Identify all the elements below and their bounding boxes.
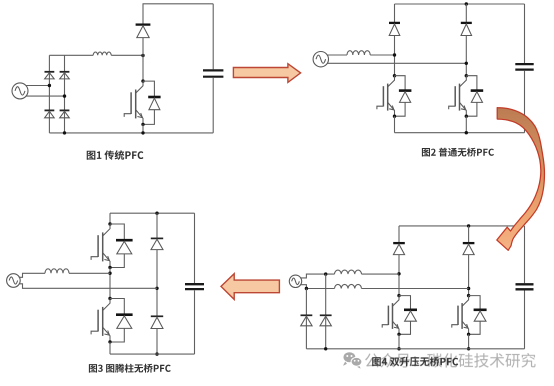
junction: fig4 left leg to bottom rail	[397, 347, 400, 350]
wire: fig4 left leg lower	[398, 334, 400, 349]
transistor Q4 with diode D11 (fig3 upper switch)	[91, 224, 124, 268]
junction: fig2 left IGBT emitter	[393, 115, 396, 118]
inductor L4 (fig4 top)	[335, 270, 362, 274]
wire: fig3 left leg top	[109, 213, 111, 224]
wire: fig3 cap vertical lower	[194, 290, 196, 354]
wire: fig2 top rail	[395, 3, 525, 5]
wire: fig2 AC top lead to inductor	[327, 54, 347, 56]
label: fig1 caption 图1 传统PFC	[87, 150, 144, 160]
wire: fig2 bottom rail	[395, 132, 525, 134]
junction: fig1 AC- to bridge	[63, 94, 66, 97]
wire: fig4 left leg upper	[398, 226, 400, 242]
wire: fig4 AC bottom lead jog	[300, 285, 334, 289]
arrow: fig2 to fig4 (curved block arrow)	[497, 108, 545, 251]
watermark: 公众号：碳化硅技术研究	[365, 353, 536, 368]
wire: fig3 left leg bottom	[109, 342, 111, 354]
junction: fig4 bottom lead to branch 1	[305, 287, 308, 290]
diode D13 (fig3 mid leg upper)	[151, 237, 163, 239]
junction: fig3 lower IGBT emitter	[108, 340, 111, 343]
wire: fig4 right leg middle	[468, 255, 470, 296]
wire: fig3 mid leg middle	[156, 250, 158, 317]
junction: fig4 top lead to branch 2	[324, 272, 327, 275]
capacitor C1 (fig1 output cap)	[203, 69, 223, 71]
wire: fig1 boost diode branch lower	[142, 38, 144, 56]
wire: fig3 AC top lead after inductor	[69, 272, 110, 274]
capacitor C2 (fig2 output cap)	[515, 63, 533, 65]
wire: fig4 return branch 2 vertical	[325, 274, 327, 349]
diode D1 (fig1 bridge upper-left)	[45, 71, 55, 73]
wire: fig2 left leg upper	[394, 4, 396, 23]
junction: fig1 switch to bottom rail	[141, 131, 144, 134]
transistor Q1 with diode D6 (fig1 boost switch)	[124, 81, 154, 124]
junction: fig4 right IGBT emitter	[467, 333, 470, 336]
junction: fig2 right IGBT collector	[465, 74, 468, 77]
wire: fig1 top rail left of inductor	[49, 54, 93, 56]
wire: fig1 switch branch upper	[142, 55, 144, 81]
junction: fig2 right IGBT emitter	[465, 115, 468, 118]
junction: fig1 AC+ to bridge	[48, 84, 51, 87]
wire: fig1 bottom rail	[49, 132, 213, 134]
wire: fig2 right leg upper	[465, 4, 467, 23]
AC source V2 (fig2)	[313, 52, 328, 67]
junction: fig1 bridge right to bottom rail	[63, 131, 66, 134]
junction: fig2 top rail right leg	[465, 2, 468, 5]
junction: fig2 AC- to right leg	[465, 62, 468, 65]
wire: fig2 cap vertical lower	[524, 71, 526, 133]
diode D14 (fig3 mid leg lower)	[151, 315, 163, 317]
wire: fig1 top rail right of inductor	[111, 54, 143, 56]
transistor Q3 with diode D10 (fig2 right switch)	[449, 76, 477, 117]
wire: fig4 AC bottom lead after inductor	[362, 288, 469, 290]
transistor Q2 with diode D8 (fig2 left switch)	[377, 76, 405, 117]
wire: fig3 left leg mid	[109, 268, 111, 299]
wire: fig4 right leg lower	[468, 334, 470, 349]
wire: fig3 AC bottom lead	[19, 284, 157, 289]
wire: fig1 output right vertical upper	[212, 4, 214, 70]
arrow: fig1 to fig2 (right block arrow)	[233, 64, 300, 83]
AC source V1 (fig1)	[12, 83, 28, 99]
diode D5 (fig1 boost diode)	[136, 23, 151, 25]
transistor Q5 with diode D12 (fig3 lower switch)	[91, 299, 124, 343]
wire: fig4 right leg upper	[468, 226, 470, 242]
AC source V3 (fig3)	[7, 274, 21, 288]
inductor L5 (fig4 bottom)	[335, 284, 362, 288]
wire: fig4 AC top lead jog	[300, 274, 334, 278]
junction: fig1 IGBT collector node	[141, 79, 144, 82]
capacitor C3 (fig3 output cap)	[185, 283, 204, 285]
junction: fig1 boost node	[141, 54, 144, 57]
transistor Q7 with diode D18 (fig4 right switch)	[452, 296, 480, 335]
wire: fig1 output top rail	[143, 3, 214, 5]
inductor L2 (fig2)	[347, 51, 370, 55]
wire: fig3 AC top lead jog	[19, 273, 45, 277]
label: fig2 caption 图2 普通无桥PFC	[422, 148, 494, 157]
diode D4 (fig1 bridge lower-right)	[60, 109, 70, 111]
diode D15 (fig4 left leg)	[393, 242, 405, 244]
wire: fig1 boost diode branch upper	[142, 4, 144, 24]
diode D2 (fig1 bridge upper-right)	[60, 71, 70, 73]
inductor L3 (fig3)	[45, 269, 69, 274]
diode D20 (fig4 return branch 2)	[320, 314, 332, 316]
wire: fig2 AC bottom lead	[327, 62, 466, 64]
diode D7 (fig2 left leg)	[389, 22, 400, 24]
wire: fig2 left leg middle	[394, 36, 396, 76]
label: fig4 caption 图4 双升压无桥PFC	[372, 357, 458, 366]
AC source V4 (fig4)	[289, 275, 301, 287]
junction: fig4 right IGBT collector	[467, 294, 470, 297]
label: fig3 caption 图3 图腾柱无桥PFC	[89, 364, 171, 373]
inductor L1 (fig1 boost inductor)	[93, 52, 111, 55]
wire: fig1 switch branch lower	[142, 124, 144, 132]
wire: fig2 AC top lead after inductor	[370, 54, 394, 56]
wire: fig1 output right vertical lower	[212, 78, 214, 133]
wire: fig4 AC top lead after inductor	[362, 273, 400, 275]
watermark: WeChat icon	[343, 352, 362, 368]
junction: fig3 upper IGBT collector	[108, 222, 111, 225]
capacitor C4 (fig4 output cap)	[516, 283, 534, 285]
diode D17 (fig4 right leg)	[463, 242, 475, 244]
wire: fig3 cap vertical upper	[194, 213, 196, 283]
wire: fig2 left leg lower	[394, 116, 396, 133]
wire: fig2 right leg lower	[465, 116, 467, 133]
wire: fig4 left leg middle	[398, 255, 400, 296]
junction: fig4 left IGBT collector	[397, 294, 400, 297]
arrow: fig4 to fig3 (left block arrow)	[221, 274, 279, 300]
wire: fig1 AC bottom lead	[26, 95, 64, 97]
diode D19 (fig4 return branch 1)	[301, 314, 313, 316]
wire: fig1 AC top lead	[26, 85, 49, 87]
junction: fig4 AC+ to left leg	[397, 272, 400, 275]
wire: fig3 bottom rail	[110, 353, 195, 355]
wire: fig3 top rail	[110, 212, 195, 214]
wire: fig1 bridge left vertical	[48, 55, 50, 133]
wire: fig4 top rail	[399, 225, 525, 227]
transistor Q6 with diode D16 (fig4 left switch)	[382, 296, 410, 335]
junction: fig2 AC+ to left leg	[393, 53, 396, 56]
wire: fig2 right leg middle	[465, 36, 467, 76]
wire: fig4 return branch 1 vertical	[305, 289, 307, 349]
wire: fig4 cap vertical upper	[524, 226, 526, 283]
junction: fig4 AC- to right leg	[467, 287, 470, 290]
junction: fig3 top rail mid leg	[155, 212, 158, 215]
junction: fig1 IGBT emitter node	[141, 123, 144, 126]
diode D9 (fig2 right leg)	[461, 22, 472, 24]
junction: fig3 upper IGBT emitter	[108, 266, 111, 269]
diode D3 (fig1 bridge lower-left)	[45, 109, 55, 111]
wire: fig3 mid leg lower	[156, 329, 158, 355]
junction: fig4 right leg to bottom rail	[467, 347, 470, 350]
wire: fig2 cap vertical upper	[524, 4, 526, 63]
junction: fig4 left IGBT emitter	[397, 333, 400, 336]
junction: fig2 right leg to bottom rail	[465, 131, 468, 134]
junction: fig4 branch 2 to bottom rail	[324, 347, 327, 350]
wire: fig1 bridge right vertical	[64, 55, 66, 133]
wire: fig3 mid leg upper	[156, 213, 158, 238]
wire: fig4 cap vertical lower	[524, 291, 526, 349]
junction: fig3 AC- to mid leg	[155, 287, 158, 290]
junction: fig3 AC+ node	[108, 272, 111, 275]
junction: fig3 mid leg to bottom rail	[155, 352, 158, 355]
junction: fig4 top rail right leg	[467, 224, 470, 227]
junction: fig2 left IGBT collector	[393, 74, 396, 77]
junction: fig3 lower IGBT collector	[108, 297, 111, 300]
wire: fig4 bottom rail	[306, 348, 524, 350]
